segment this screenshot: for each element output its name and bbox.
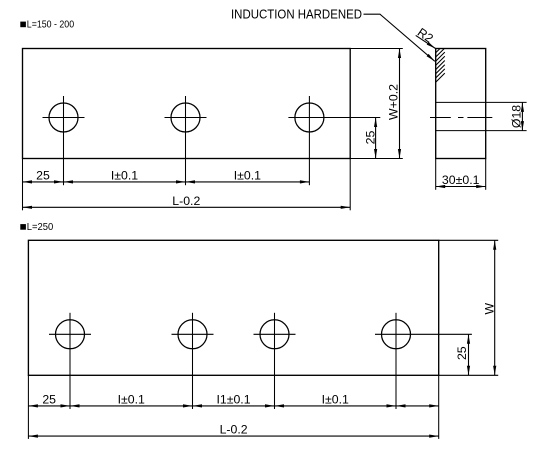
svg-text:30±0.1: 30±0.1 bbox=[442, 173, 480, 187]
svg-text:L-0.2: L-0.2 bbox=[220, 423, 248, 437]
svg-text:25: 25 bbox=[36, 168, 50, 182]
hole H1 horizontal centerline bbox=[43, 117, 85, 119]
dim L-0.2, bottom view bbox=[28, 435, 438, 437]
svg-text:L=150 - 200: L=150 - 200 bbox=[27, 20, 75, 31]
svg-text:W+0.2: W+0.2 bbox=[387, 84, 401, 120]
extension lines side view bottom for 30+-0.1 bbox=[435, 159, 437, 190]
extension line, top edge extended right bbox=[350, 48, 403, 50]
hole B3 circle bbox=[260, 320, 289, 349]
dim I+-0.1 hole2-hole3, top view bbox=[186, 181, 310, 183]
hole axis dash-dot centerline bbox=[430, 117, 492, 119]
svg-text:25: 25 bbox=[42, 392, 56, 406]
hole H3 horizontal centerline bbox=[288, 117, 380, 119]
extension line, bottom view right edge down bbox=[438, 375, 440, 439]
extension line, top view right edge down bbox=[349, 159, 351, 211]
R2 leader line bbox=[416, 35, 436, 48]
dim I1+-0.1 hole2-hole3, bottom view bbox=[193, 405, 275, 407]
extension line, bottom view bottom edge right bbox=[439, 374, 499, 376]
svg-text:INDUCTION HARDENED: INDUCTION HARDENED bbox=[231, 8, 362, 22]
plate outline, bottom view L=250 bbox=[28, 240, 438, 375]
hole H1 circle bbox=[49, 103, 78, 132]
dim L-0.2, top view bbox=[23, 206, 351, 208]
side view outline bbox=[436, 49, 486, 159]
hole top edge line in side view + dia18 extension bbox=[436, 101, 527, 103]
dim I+-0.1 hole1-hole2, top view bbox=[64, 181, 186, 183]
svg-text:I±0.1: I±0.1 bbox=[322, 392, 349, 406]
dim 25 left margin, bottom view bbox=[28, 405, 70, 407]
label square for L=150-200 bbox=[20, 22, 26, 28]
dim 25 vertical hole3 to bottom edge, top view bbox=[375, 118, 377, 159]
svg-text:I1±0.1: I1±0.1 bbox=[216, 392, 250, 406]
extension line, top view left edge down bbox=[22, 159, 24, 211]
svg-text:W: W bbox=[482, 303, 496, 315]
hole bottom edge line in side view + dia18 extension bbox=[436, 130, 527, 132]
extension line, bottom edge extended right bbox=[350, 158, 403, 160]
hole H3 vertical centerline down to dimension rows bbox=[308, 96, 310, 185]
dim W, bottom view bbox=[494, 240, 496, 375]
hole B1 circle bbox=[56, 320, 85, 349]
plate outline, top view L=150-200 bbox=[23, 49, 351, 159]
svg-text:I±0.1: I±0.1 bbox=[234, 168, 261, 182]
dim right margin unlabeled, bottom view bbox=[396, 405, 439, 407]
hole H2 vertical centerline down to dimension rows bbox=[185, 96, 187, 185]
hole B4 horizontal centerline bbox=[375, 333, 472, 335]
hole H2 horizontal centerline bbox=[165, 117, 207, 119]
dim I+-0.1 hole1-hole2, bottom view bbox=[70, 405, 193, 407]
hole B2 horizontal centerline bbox=[172, 333, 214, 335]
extension line, bottom view left edge down bbox=[27, 375, 29, 439]
hatching on induction hardened edge bbox=[436, 48, 445, 82]
leader arrowhead on hardened edge bbox=[427, 54, 435, 61]
hole B4 vertical centerline down to dimension rows bbox=[395, 313, 397, 409]
hole H1 vertical centerline down to dimension rows bbox=[63, 96, 65, 185]
hole B1 horizontal centerline bbox=[49, 333, 91, 335]
hole B4 circle bbox=[382, 320, 411, 349]
svg-text:Ø18: Ø18 bbox=[509, 105, 523, 128]
hole H3 circle bbox=[295, 103, 324, 132]
extension line, bottom view top edge right bbox=[439, 239, 499, 241]
svg-text:L-0.2: L-0.2 bbox=[172, 194, 200, 208]
label square for L=250 bbox=[20, 224, 26, 230]
hole B2 circle bbox=[178, 320, 207, 349]
dim 30+-0.1 bbox=[436, 186, 486, 188]
hole B2 vertical centerline down to dimension rows bbox=[192, 313, 194, 409]
dim 25 vertical hole4 to bottom edge, bottom view bbox=[468, 334, 470, 375]
dim W+0.2, top view bbox=[399, 49, 401, 159]
dim I+-0.1 hole3-hole4, bottom view bbox=[275, 405, 397, 407]
svg-text:I±0.1: I±0.1 bbox=[118, 392, 145, 406]
svg-text:I±0.1: I±0.1 bbox=[111, 168, 138, 182]
svg-text:25: 25 bbox=[363, 131, 377, 145]
dim 25 left margin, top view bbox=[23, 181, 64, 183]
dim dia 18 bbox=[521, 102, 523, 130]
svg-text:L=250: L=250 bbox=[27, 222, 54, 233]
svg-text:25: 25 bbox=[455, 346, 469, 360]
hole B3 vertical centerline down to dimension rows bbox=[274, 313, 276, 409]
leader line from note to hardened edge bbox=[364, 14, 435, 61]
hole H2 circle bbox=[171, 103, 200, 132]
R2 arrowhead at corner bbox=[427, 42, 436, 49]
hole B3 horizontal centerline bbox=[254, 333, 296, 335]
hole B1 vertical centerline down to dimension rows bbox=[69, 313, 71, 409]
